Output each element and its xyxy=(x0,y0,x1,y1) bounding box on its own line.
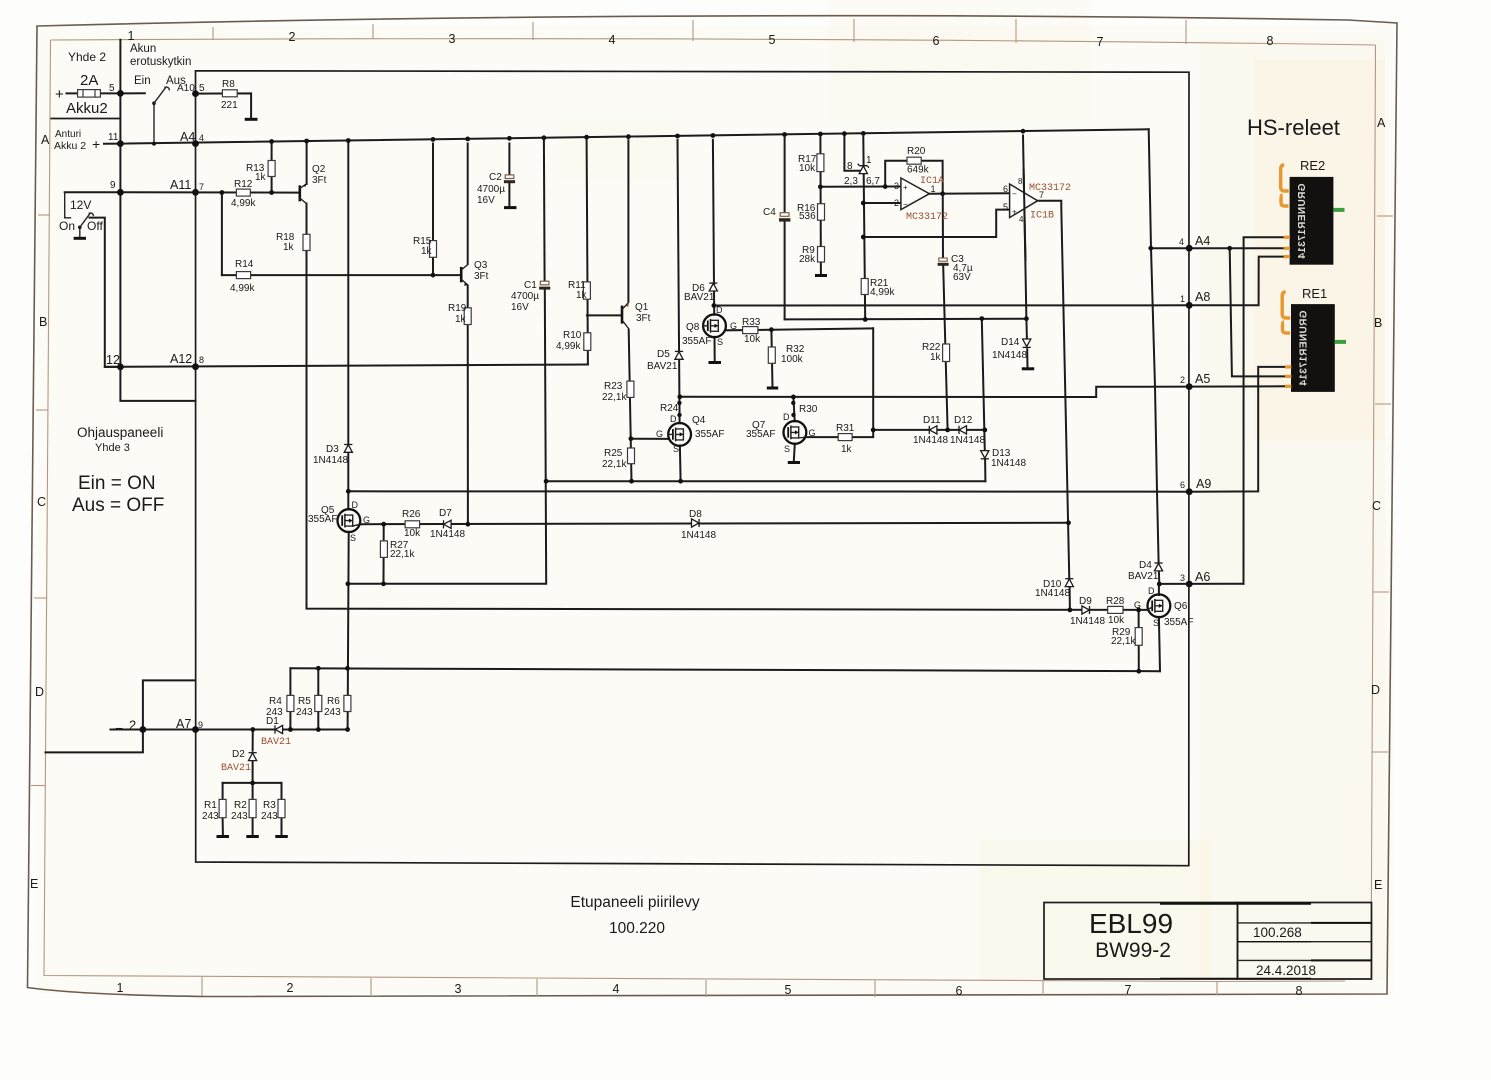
wire Q4 gate lead xyxy=(631,438,668,440)
diode D11 xyxy=(929,426,937,434)
svg-text:C: C xyxy=(37,495,46,509)
resistor R10 xyxy=(584,333,591,351)
op-amp U2 IC1B xyxy=(1010,184,1038,218)
svg-text:4: 4 xyxy=(199,133,204,143)
resistor R6 xyxy=(344,695,351,711)
svg-text:A4: A4 xyxy=(180,130,195,144)
wire node12 jog to frame xyxy=(120,367,195,401)
svg-text:4: 4 xyxy=(609,33,616,47)
wire Q1 base lead xyxy=(587,314,622,316)
svg-text:RE1: RE1 xyxy=(1302,286,1327,301)
svg-text:6: 6 xyxy=(1003,184,1008,194)
resistor R21 xyxy=(861,279,868,295)
svg-text:B: B xyxy=(39,315,47,329)
label Yhde 2 box xyxy=(51,118,122,120)
svg-text:1k: 1k xyxy=(421,246,433,257)
svg-text:7: 7 xyxy=(1097,35,1104,49)
wire A4 main bus xyxy=(120,129,1148,143)
resistor R19 xyxy=(464,308,471,325)
svg-text:4,99k: 4,99k xyxy=(556,341,581,352)
resistor R28 xyxy=(1108,606,1123,613)
svg-text:R8: R8 xyxy=(222,79,235,90)
svg-text:2: 2 xyxy=(289,30,296,44)
svg-text:6,7: 6,7 xyxy=(866,176,880,187)
svg-text:R26: R26 xyxy=(402,509,421,520)
wire A7 jog to frame xyxy=(46,680,196,752)
svg-text:2: 2 xyxy=(129,718,136,733)
mosfet Q7 xyxy=(784,421,807,444)
svg-text:A10: A10 xyxy=(177,83,195,94)
svg-text:−: − xyxy=(1012,190,1017,199)
svg-text:3Ft: 3Ft xyxy=(312,175,327,186)
svg-text:2,3: 2,3 xyxy=(844,176,858,187)
svg-text:Q8: Q8 xyxy=(686,322,700,333)
svg-text:10k: 10k xyxy=(744,334,761,345)
svg-text:16V: 16V xyxy=(477,195,495,206)
wire pin8 jog xyxy=(844,137,863,171)
node A8 xyxy=(1186,302,1193,309)
svg-text:11: 11 xyxy=(108,132,119,143)
svg-text:1N4148: 1N4148 xyxy=(681,530,716,541)
resistor R14 xyxy=(236,272,250,279)
svg-text:1: 1 xyxy=(117,981,124,995)
bottom ruler ticks xyxy=(202,977,1217,997)
junction A6/D4/Q6 xyxy=(1157,582,1162,587)
wire A6 row xyxy=(1159,583,1243,585)
bottom ruler numbers xyxy=(117,981,1303,998)
diode D7 xyxy=(444,520,452,528)
wire Q2 emitter chain through R18 down to D9 row xyxy=(307,204,1148,610)
junction D11 D12 row xyxy=(871,428,987,433)
wire bus1 A8 row xyxy=(714,257,1285,306)
ruler band inner lines xyxy=(51,39,1376,45)
wire R5 bottom xyxy=(317,711,319,729)
svg-text:BAV21: BAV21 xyxy=(221,763,251,774)
svg-text:4: 4 xyxy=(613,982,620,996)
top ruler ticks xyxy=(213,19,1186,44)
svg-text:536: 536 xyxy=(799,211,816,222)
svg-text:Yhde 2: Yhde 2 xyxy=(68,50,106,64)
wire bus668 xyxy=(290,668,1160,671)
wire R30 Q7 column xyxy=(793,397,794,422)
wire C2 branch xyxy=(508,144,510,175)
svg-text:IC1B: IC1B xyxy=(1030,211,1054,222)
wire zener column to bus2 xyxy=(863,137,865,320)
svg-text:Off: Off xyxy=(87,219,103,233)
diode D2 xyxy=(249,753,257,761)
junction bus2 xyxy=(863,316,1029,322)
svg-text:GRUNER17314: GRUNER17314 xyxy=(1297,183,1308,259)
svg-text:10k: 10k xyxy=(404,528,421,539)
wire C4 column to bus2 xyxy=(784,138,786,320)
diode D9 xyxy=(1082,606,1090,614)
wire A10 to R8 and ground xyxy=(196,93,252,118)
wire A4 right feeder xyxy=(1149,129,1160,584)
capacitor C1 xyxy=(539,281,550,289)
svg-text:Akku2: Akku2 xyxy=(66,100,108,117)
svg-text:S: S xyxy=(784,444,790,454)
transistor Q3 xyxy=(461,265,468,286)
wire switch pivot down to A4 xyxy=(153,103,155,143)
diode D13 xyxy=(981,451,989,459)
resistor R24 (minimal) xyxy=(677,401,682,418)
svg-text:D: D xyxy=(352,500,359,510)
resistor R1 xyxy=(219,799,226,817)
capacitor C3 xyxy=(938,258,949,266)
resistor R9 xyxy=(818,247,825,263)
wire Q6 drain xyxy=(1158,584,1160,595)
wire IC1B power vertical overlay xyxy=(1024,170,1026,260)
resistor R30 (minimal) xyxy=(791,401,796,417)
wire R4 bottom xyxy=(289,711,291,729)
svg-text:22,1k: 22,1k xyxy=(602,459,627,470)
wire A4 branch to RE1 pin2 xyxy=(1230,248,1287,376)
svg-text:3Ft: 3Ft xyxy=(474,271,489,282)
wire D3 chain from A4 to Q5 xyxy=(347,144,349,510)
wire D6 chain from A4 to Q8 xyxy=(713,140,714,315)
wire R32 branch xyxy=(771,330,772,387)
junction D2 bottom xyxy=(250,781,255,786)
svg-text:G: G xyxy=(656,429,663,439)
svg-text:1k: 1k xyxy=(841,444,853,455)
svg-text:22,1k: 22,1k xyxy=(602,392,627,403)
transistor Q2 xyxy=(300,183,307,203)
wire R1 R2 R3 top bus xyxy=(223,782,282,784)
svg-text:D7: D7 xyxy=(439,508,452,519)
svg-text:erotuskytkin: erotuskytkin xyxy=(130,56,191,68)
svg-text:5: 5 xyxy=(109,83,115,94)
wire opamp -input xyxy=(863,202,901,204)
svg-text:A5: A5 xyxy=(1195,372,1210,386)
svg-text:+: + xyxy=(92,136,100,152)
svg-text:G: G xyxy=(730,321,737,331)
svg-text:S: S xyxy=(350,533,356,543)
mosfet Q6 xyxy=(1148,594,1171,617)
mosfet Q4 xyxy=(668,423,691,446)
svg-text:D2: D2 xyxy=(232,749,245,760)
wire IC1B output long vertical xyxy=(1038,201,1070,610)
svg-text:4,99k: 4,99k xyxy=(870,287,895,298)
ground for R32 xyxy=(767,387,778,390)
svg-text:1k: 1k xyxy=(283,242,295,253)
relay RE2 xyxy=(1281,165,1345,265)
junction node 9 xyxy=(117,189,124,196)
svg-text:BAV21: BAV21 xyxy=(1128,571,1159,582)
resistor R27 xyxy=(380,541,387,558)
resistor R17 xyxy=(817,154,824,172)
svg-text:A12: A12 xyxy=(170,352,192,366)
svg-text:Ein = ON: Ein = ON xyxy=(78,473,156,494)
svg-text:R31: R31 xyxy=(836,423,855,434)
svg-text:Yhde 3: Yhde 3 xyxy=(95,442,130,454)
switch S1 Ein/Aus xyxy=(152,87,169,105)
fuse F1 2A xyxy=(78,90,101,98)
svg-text:8: 8 xyxy=(1018,177,1023,186)
svg-text:R24: R24 xyxy=(660,403,679,414)
svg-text:D: D xyxy=(783,412,790,422)
title block xyxy=(1044,903,1372,980)
wire D2 branch xyxy=(252,730,254,751)
side band ticks xyxy=(31,215,1393,786)
svg-text:BW99-2: BW99-2 xyxy=(1095,939,1171,962)
svg-text:12V: 12V xyxy=(70,198,91,212)
svg-text:HS-releet: HS-releet xyxy=(1247,115,1340,140)
svg-text:63V: 63V xyxy=(953,272,971,283)
svg-text:D8: D8 xyxy=(689,509,702,520)
junction node 2 xyxy=(140,726,147,733)
svg-text:8: 8 xyxy=(1296,984,1303,998)
svg-text:D: D xyxy=(35,685,44,699)
svg-text:12: 12 xyxy=(106,353,120,367)
transistor Q1 xyxy=(622,302,629,329)
svg-text:C2: C2 xyxy=(489,172,502,183)
resistor R26 xyxy=(405,521,420,528)
ground for C2 xyxy=(504,206,517,209)
svg-text:R33: R33 xyxy=(742,317,761,328)
resistor R11 xyxy=(583,282,590,299)
svg-text:100.268: 100.268 xyxy=(1253,925,1302,940)
svg-text:D9: D9 xyxy=(1079,596,1092,607)
ground for Q7 source xyxy=(788,461,800,464)
svg-text:D: D xyxy=(670,414,677,424)
resistor R31 xyxy=(838,434,852,441)
svg-text:1N4148: 1N4148 xyxy=(1070,616,1105,627)
svg-text:R12: R12 xyxy=(234,179,253,190)
svg-text:8: 8 xyxy=(847,161,853,172)
svg-text:Akku 2: Akku 2 xyxy=(54,140,86,152)
svg-text:5: 5 xyxy=(199,83,205,94)
top ruler numbers xyxy=(128,29,1274,49)
junction node 11 xyxy=(117,140,124,147)
svg-text:221: 221 xyxy=(221,100,238,111)
wire R13 branch xyxy=(271,144,273,193)
svg-text:C4: C4 xyxy=(763,207,776,218)
svg-text:D5: D5 xyxy=(657,349,670,360)
svg-text:1N4148: 1N4148 xyxy=(913,435,948,446)
svg-text:D: D xyxy=(1148,586,1155,596)
wire A9 row xyxy=(348,367,1286,492)
wire on/off switch to long vertical xyxy=(90,218,121,367)
junction opamp input rows xyxy=(818,184,945,239)
svg-text:4700µ: 4700µ xyxy=(511,291,539,302)
wire R2 column xyxy=(252,783,254,835)
resistor R3 xyxy=(278,799,285,817)
svg-text:2: 2 xyxy=(1180,375,1185,385)
svg-text:100.220: 100.220 xyxy=(609,920,665,937)
junction fuse/node 5 xyxy=(117,90,124,97)
svg-text:Q4: Q4 xyxy=(692,415,706,426)
diode D1 xyxy=(275,725,283,733)
junction node 12 xyxy=(117,364,124,371)
capacitor C4 xyxy=(779,213,790,222)
svg-text:3: 3 xyxy=(1180,573,1185,583)
svg-text:Aus = OFF: Aus = OFF xyxy=(72,495,164,516)
svg-text:D12: D12 xyxy=(954,415,973,426)
junction R15 on R14 row xyxy=(431,273,436,278)
svg-text:+: + xyxy=(903,183,908,192)
capacitor C2 xyxy=(504,175,515,183)
wire A11 row xyxy=(65,191,300,193)
svg-text:3: 3 xyxy=(455,982,462,996)
svg-text:3Ft: 3Ft xyxy=(636,313,651,324)
svg-text:355AF: 355AF xyxy=(1164,617,1193,628)
wire Q6 source xyxy=(1159,617,1160,671)
svg-text:1N4148: 1N4148 xyxy=(1035,588,1070,599)
svg-text:243: 243 xyxy=(202,811,219,822)
svg-text:D3: D3 xyxy=(326,444,339,455)
wire opamp +input xyxy=(820,186,901,188)
resistor R23 xyxy=(627,381,634,397)
svg-text:R2: R2 xyxy=(234,800,247,811)
resistor R18 xyxy=(303,234,310,250)
svg-text:8: 8 xyxy=(1267,34,1274,48)
svg-text:243: 243 xyxy=(231,811,248,822)
svg-text:1N4148: 1N4148 xyxy=(991,458,1026,469)
resistor R8 xyxy=(222,90,237,97)
wire left connector vertical xyxy=(119,40,121,367)
junction A4 feeder xyxy=(1148,246,1232,251)
resistor R22 xyxy=(943,344,950,362)
svg-text:+: + xyxy=(1012,208,1017,217)
svg-text:MC33172: MC33172 xyxy=(1029,183,1071,194)
svg-text:+: + xyxy=(55,86,64,103)
wire R12 to R14 branch xyxy=(221,193,223,276)
diode D5 xyxy=(675,351,683,359)
svg-text:R23: R23 xyxy=(604,381,623,392)
wire R29 branch xyxy=(1138,610,1140,671)
svg-text:4: 4 xyxy=(1019,215,1024,224)
svg-text:5: 5 xyxy=(785,983,792,997)
resistor R4 xyxy=(287,695,294,711)
wire A5 bus xyxy=(680,386,1287,397)
junction Q8 drain on A8 bus xyxy=(712,303,717,308)
ground for R1 xyxy=(217,835,230,838)
wire R20 right to C3 R22 column xyxy=(921,161,947,430)
wire bus2 xyxy=(785,318,1027,321)
svg-text:E: E xyxy=(30,877,38,891)
wire A12 row xyxy=(105,365,588,367)
svg-text:1N4148: 1N4148 xyxy=(430,529,465,540)
svg-text:4700µ: 4700µ xyxy=(477,184,505,195)
wire IC1B +input feed xyxy=(863,210,1009,237)
svg-text:−: − xyxy=(903,200,908,209)
svg-text:R6: R6 xyxy=(327,696,340,707)
wire R15 branch xyxy=(432,144,434,276)
svg-text:3: 3 xyxy=(894,181,899,191)
svg-text:5: 5 xyxy=(1003,202,1008,212)
resistor R33 xyxy=(743,327,758,334)
wire fuse row to switch xyxy=(67,92,145,94)
svg-text:7: 7 xyxy=(1125,983,1132,997)
junction dots on A4 bus xyxy=(269,129,1025,144)
svg-text:BAV21: BAV21 xyxy=(261,737,291,748)
svg-text:A11: A11 xyxy=(170,178,191,192)
svg-text:A: A xyxy=(1377,116,1386,130)
ground for R3 xyxy=(275,835,288,838)
wire R14 row xyxy=(222,274,461,276)
wire Q3 emitter through R19 to gate line xyxy=(467,286,469,524)
svg-text:D11: D11 xyxy=(923,415,941,426)
diode D3 xyxy=(344,445,352,453)
svg-text:355AF: 355AF xyxy=(308,514,337,525)
svg-text:6: 6 xyxy=(1180,480,1185,490)
svg-text:9: 9 xyxy=(198,720,203,730)
svg-text:−: − xyxy=(115,720,123,736)
junction R33/R32 xyxy=(769,327,774,332)
svg-text:R19: R19 xyxy=(448,303,467,314)
svg-text:7: 7 xyxy=(1039,190,1044,200)
svg-text:5: 5 xyxy=(769,33,776,47)
node A5 xyxy=(1186,383,1193,390)
wire Q7 source xyxy=(794,444,795,462)
junction bus480 xyxy=(544,479,683,484)
diode D8 xyxy=(692,519,700,527)
svg-text:7: 7 xyxy=(199,182,204,192)
svg-text:4: 4 xyxy=(1179,237,1184,247)
node A12 xyxy=(192,363,199,370)
svg-text:6: 6 xyxy=(956,984,963,998)
resistor R16 xyxy=(818,204,825,221)
svg-text:D: D xyxy=(1371,683,1380,697)
svg-text:GRUNER17314: GRUNER17314 xyxy=(1299,310,1310,386)
svg-text:Anturi: Anturi xyxy=(55,129,81,140)
resistor R15 xyxy=(430,241,437,258)
wire R17 R16 R9 column xyxy=(819,137,822,274)
ground for R2 xyxy=(246,835,258,838)
svg-text:9: 9 xyxy=(110,180,116,191)
svg-text:1k: 1k xyxy=(455,314,467,325)
wire R20 left lead xyxy=(885,161,907,187)
svg-text:EBL99: EBL99 xyxy=(1089,908,1173,939)
wire A7 row xyxy=(111,729,348,731)
wire D13 column xyxy=(982,319,985,451)
svg-text:R4: R4 xyxy=(269,696,282,707)
switch S2 On/Off xyxy=(78,213,93,237)
wire Q8 gate row R33 xyxy=(726,328,873,330)
svg-text:1N4148: 1N4148 xyxy=(992,350,1027,361)
junction gate row Q4 xyxy=(629,436,634,441)
mosfet Q5 xyxy=(338,509,361,532)
svg-text:E: E xyxy=(1374,878,1382,892)
wire Q4 source xyxy=(679,446,682,482)
svg-text:R30: R30 xyxy=(799,404,818,415)
svg-text:C1: C1 xyxy=(524,280,537,291)
svg-text:24.4.2018: 24.4.2018 xyxy=(1256,963,1316,978)
svg-text:D: D xyxy=(716,305,723,315)
wire Q8 source to ground xyxy=(714,337,716,362)
ground for D14 xyxy=(1022,367,1034,370)
svg-text:28k: 28k xyxy=(799,254,816,265)
svg-text:A7: A7 xyxy=(176,717,191,731)
svg-text:355AF: 355AF xyxy=(695,429,724,440)
junction Q5 drain on A9 xyxy=(346,489,351,494)
ground for Q8 source xyxy=(709,361,722,364)
svg-text:B: B xyxy=(1374,316,1382,330)
node A6 xyxy=(1186,581,1193,588)
inner schematic frame xyxy=(196,71,1190,866)
svg-text:R25: R25 xyxy=(604,448,623,459)
svg-text:D4: D4 xyxy=(1139,560,1152,571)
svg-text:10k: 10k xyxy=(1108,615,1125,626)
svg-text:355AF: 355AF xyxy=(682,336,711,347)
svg-text:R14: R14 xyxy=(235,259,254,270)
svg-text:1N4148: 1N4148 xyxy=(950,435,985,446)
zener diode (pins 1/2,3/6,7) xyxy=(858,164,869,174)
resistor R2 xyxy=(249,799,256,817)
svg-text:1: 1 xyxy=(931,184,936,194)
svg-text:355AF: 355AF xyxy=(746,429,775,440)
junction D9 D10 row xyxy=(1068,608,1142,613)
